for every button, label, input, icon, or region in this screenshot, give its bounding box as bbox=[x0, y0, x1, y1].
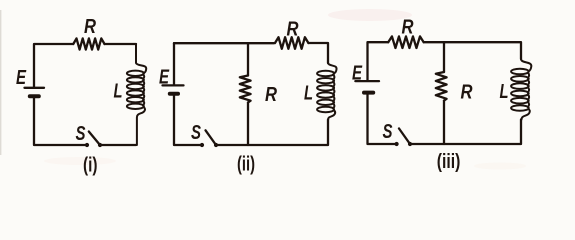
wire: top-left corner to resistor bbox=[368, 42, 389, 80]
svg-text:R: R bbox=[287, 18, 299, 40]
wire: resistor to top-right corner bbox=[308, 43, 328, 63]
svg-text:L: L bbox=[304, 83, 313, 105]
resistor R (top of circuit iii) bbox=[388, 36, 424, 48]
scan edge artifact bbox=[0, 10, 1, 155]
wire: left wire down to battery bbox=[173, 43, 175, 84]
switch S (circuit ii) left contact dot bbox=[200, 143, 204, 147]
resistor R (middle branch circuit ii) bbox=[240, 76, 251, 103]
svg-text:S: S bbox=[383, 121, 393, 143]
svg-text:L: L bbox=[500, 81, 509, 103]
wire: switch to bottom-right corner bbox=[100, 144, 136, 146]
inductor L (circuit iii) coil loops bbox=[511, 69, 529, 75]
inductor L (circuit ii) coil loops bbox=[317, 71, 334, 76]
inductor L (circuit i) entry hook bbox=[127, 44, 146, 145]
svg-text:S: S bbox=[191, 122, 201, 144]
inductor L (circuit i) coil loops bbox=[127, 71, 144, 76]
resistor R (middle branch circuit iii) bbox=[436, 72, 447, 101]
svg-text:L: L bbox=[114, 81, 123, 103]
wire: battery to bottom-left corner to switch bbox=[174, 94, 202, 145]
svg-text:E: E bbox=[16, 67, 26, 89]
switch S (circuit iii) blade bbox=[399, 129, 410, 145]
wire: battery to bottom-left corner to switch bbox=[368, 93, 397, 144]
inductor L (circuit ii) exit hook bbox=[328, 110, 335, 119]
inductor L (circuit iii) exit hook bbox=[522, 109, 530, 120]
wire: top-left corner + left wire to battery bbox=[34, 44, 73, 87]
switch S (circuit i) left contact dot bbox=[85, 143, 89, 147]
wire: switch along bottom to bottom-right corner bbox=[410, 120, 521, 145]
switch S (circuit i) right contact dot bbox=[98, 143, 102, 147]
wire: battery to bottom-left corner and to switch bbox=[34, 96, 87, 145]
svg-text:R: R bbox=[461, 81, 473, 103]
wire: middle branch bottom segment bbox=[247, 103, 249, 146]
switch S (circuit iii) right contact dot bbox=[408, 142, 412, 146]
svg-text:(i): (i) bbox=[83, 155, 98, 177]
resistor R1 (top of circuit i) bbox=[73, 38, 104, 49]
wire: middle branch top segment bbox=[247, 43, 249, 75]
wire: middle branch top segment bbox=[443, 42, 445, 72]
svg-text:(ii): (ii) bbox=[237, 154, 255, 176]
switch S (circuit iii) left contact dot bbox=[395, 142, 399, 146]
switch S (circuit ii) blade bbox=[206, 130, 217, 145]
battery E (circuit iii) short plate bbox=[364, 91, 373, 95]
inductor L (circuit iii) loop connectors bbox=[528, 73, 529, 108]
svg-text:S: S bbox=[76, 123, 86, 145]
battery E (circuit ii) long plate bbox=[163, 84, 184, 86]
inductor L (circuit i) loop connectors bbox=[143, 74, 144, 105]
svg-text:(iii): (iii) bbox=[437, 151, 461, 173]
svg-text:E: E bbox=[159, 67, 169, 89]
inductor L (circuit iii) entry hook bbox=[511, 60, 531, 120]
wire: resistor to middle junction to top-right corner bbox=[424, 42, 521, 59]
switch S (circuit ii) right contact dot bbox=[214, 143, 218, 147]
svg-text:R: R bbox=[265, 84, 277, 106]
wire: middle branch bottom segment bbox=[443, 101, 445, 144]
wire: switch along bottom to bottom-right corner bbox=[216, 120, 328, 146]
svg-text:R: R bbox=[84, 16, 96, 38]
battery E (circuit iii) long plate bbox=[355, 80, 379, 82]
inductor L (circuit ii) loop connectors bbox=[333, 74, 334, 108]
inductor L (circuit ii) entry hook bbox=[317, 63, 336, 119]
battery E (circuit i) short plate bbox=[30, 94, 39, 98]
resistor R (top of circuit ii) bbox=[275, 37, 308, 49]
wire: resistor to top-right corner bbox=[105, 43, 137, 45]
wire: top wire from left corner to middle junction bbox=[174, 42, 248, 44]
faint scan smudges bbox=[328, 9, 412, 21]
battery E (circuit ii) short plate bbox=[170, 92, 178, 96]
inductor L (circuit i) exit hook bbox=[137, 107, 145, 145]
switch S (circuit i) blade bbox=[89, 132, 100, 146]
battery E (circuit i) long plate bbox=[25, 87, 45, 89]
wire: top wire from junction to series resistor bbox=[248, 42, 274, 44]
svg-text:E: E bbox=[352, 63, 362, 85]
svg-text:R: R bbox=[402, 17, 414, 39]
